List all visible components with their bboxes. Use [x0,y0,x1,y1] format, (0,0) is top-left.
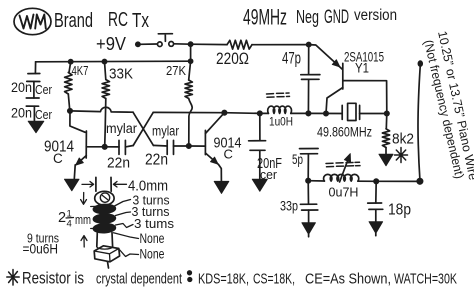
node junction below switch [189,42,193,46]
transistor Q3 2SA1015 [326,50,387,114]
svg-text:mylar: mylar [152,124,179,139]
ground Q1 emitter [65,179,80,191]
svg-text:Tx: Tx [132,10,149,32]
wire to L1 [260,112,269,114]
transistor Q2 9014 C [189,113,242,182]
capacitor C6 47p [282,45,320,114]
wire top rail to 220 ohm [191,43,227,45]
capacitor C5 20nF cer [249,113,282,182]
resistor R4 8k2 [382,114,414,155]
colon mark [188,271,192,275]
resistor R3 27K [166,61,192,146]
node 18p dot [374,179,378,183]
svg-text:Cer: Cer [35,107,53,122]
wire bias rail [36,60,191,63]
wire junction down to bias rail [190,44,192,61]
ground 20nF [252,179,267,191]
ground 33p [302,223,316,235]
wire L2 to 18p node [358,180,376,182]
wire collector rail to 20nF node [224,112,259,115]
wire 220 ohm to node C47 [252,44,309,46]
svg-text:=0u6H: =0u6H [23,242,59,257]
note antenna length rotated [435,30,474,182]
node Q1 base dot [103,145,107,149]
note not frequency dependent rotated [421,39,467,181]
asterisk note mark [395,148,408,163]
svg-text:KDS=18K,: KDS=18K, [198,271,249,288]
svg-text:20n: 20n [11,80,32,95]
crystal Y1 49.860MHz [317,103,387,139]
wire output node to L2 [308,180,324,182]
wire switch to junction [174,43,191,45]
svg-text:Cer: Cer [35,82,53,97]
svg-text:C: C [53,151,63,166]
svg-text:49.860MHz: 49.860MHz [317,125,372,140]
wire Q1 collector rail with hop over 33K [70,107,133,112]
dimension 4.0mm [82,177,168,194]
svg-text:33K: 33K [109,67,133,83]
node antenna bottom dot [417,179,422,184]
resistor R1 4K7 [65,62,89,111]
node Q2 collector dot [222,111,226,115]
ground left caps [28,121,44,133]
resistor 220 ohm [216,40,252,68]
wire +9V to switch [140,43,157,45]
svg-text:47p: 47p [282,49,301,68]
svg-text:CE=As Shown,: CE=As Shown, [305,271,391,288]
svg-text:None: None [140,231,165,246]
resistor R2 33K [102,62,133,147]
capacitor C9 18p [368,181,411,221]
node 47p top dot [307,43,311,47]
inductor L2 0u7H variable [324,154,360,200]
dimension 2 1/4 mm [58,193,96,248]
capacitor C2 20n Cer [11,98,53,122]
svg-text:Y1: Y1 [355,61,369,76]
title Brand RC Tx [54,9,149,32]
svg-text:Neg: Neg [296,7,319,27]
node bias rail / switch junction dot [189,59,193,63]
svg-text:CS=18K,: CS=18K, [253,271,295,288]
coil former drawing [93,191,119,268]
svg-text:27K: 27K [166,63,186,78]
wire cross-coupling X diagonals [133,112,153,145]
logo oval WM [14,8,51,34]
capacitor C8 33p [280,181,318,223]
svg-text:220Ω: 220Ω [216,49,249,68]
svg-text:GND: GND [324,7,349,28]
svg-text:Brand: Brand [54,9,93,32]
ground Q2 emitter [214,181,229,193]
note resistor is crystal dependent [22,270,182,288]
node 20nF top dot [258,111,262,115]
wire collector node to crystal [308,112,342,114]
wire to Q3 emitter [309,45,343,70]
svg-text:mylar: mylar [106,121,137,136]
capacitor C1 20n Cer [11,74,53,99]
svg-text:33p: 33p [280,198,298,214]
transistor Q1 9014 C [44,111,105,179]
svg-text:22n: 22n [145,152,168,169]
node Q1 collector dot [68,109,72,113]
svg-text:version: version [354,7,397,24]
svg-text:0u7H: 0u7H [329,186,359,200]
node 4K7 top dot [69,60,73,64]
wire collector rail right of X [153,111,224,113]
svg-text:3 tums: 3 tums [134,216,175,231]
label 3 turns x3, None x2 [132,193,175,262]
svg-text:18p: 18p [388,202,411,219]
svg-text:WATCH=30K: WATCH=30K [394,271,457,288]
svg-text:4: 4 [67,219,72,230]
svg-text:C: C [224,147,233,162]
wire L1 to crystal node [291,112,309,114]
note 9 turns = 0u6H [23,232,60,257]
svg-text:None: None [140,247,165,262]
svg-text:Resistor is: Resistor is [22,270,84,288]
svg-text:22n: 22n [107,155,130,172]
asterisk bottom note [7,270,19,286]
svg-text:20n: 20n [11,106,32,121]
svg-text:crystal dependent: crystal dependent [96,272,182,288]
antenna wire [418,65,420,180]
svg-text:4K7: 4K7 [72,64,89,78]
node Q3 collector dot [324,111,328,115]
node 47p/5p column dot [306,111,310,115]
note resistor values [198,271,457,288]
leader lines former labels [114,200,139,257]
svg-text:mm: mm [75,212,91,227]
node output column dot [306,179,310,183]
node antenna top terminal [418,61,422,66]
battery +9V label [96,33,127,54]
ground 18p [369,222,383,234]
svg-text:5p: 5p [292,152,303,167]
svg-text:49MHz: 49MHz [243,5,287,30]
svg-text:+9V: +9V [96,33,127,54]
capacitor C3 22n mylar left [105,121,138,172]
switch S1 pushbutton [158,34,174,47]
wire 18p node to antenna [376,180,420,182]
capacitor C7 5p [292,149,318,181]
node +9V dot [136,42,140,46]
svg-text:RC: RC [108,9,128,31]
wire rail bend down to C 20n [34,62,36,74]
node Q3 base dot [385,111,389,115]
svg-text:1u0H: 1u0H [269,115,293,129]
ground 8k2 [379,154,393,166]
node Q2 base dot [187,144,191,148]
capacitor C4 22n mylar right [145,124,189,169]
title 49MHz Neg GND version [243,5,397,30]
svg-text:2: 2 [58,210,66,226]
svg-text:8k2: 8k2 [392,132,414,148]
inductor L1 1u0H [267,93,294,129]
node 33K top dot [102,60,106,64]
